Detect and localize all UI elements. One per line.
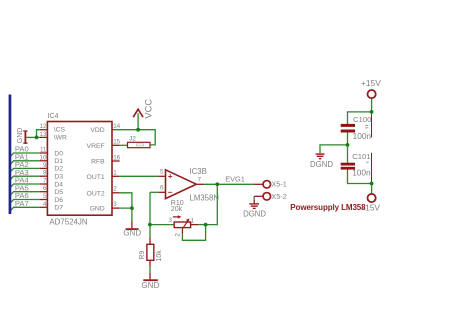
svg-text:D7: D7 [54, 205, 63, 212]
svg-text:5: 5 [160, 169, 164, 176]
svg-text:VCC: VCC [143, 99, 153, 119]
svg-text:15: 15 [113, 139, 120, 146]
svg-text:C100: C100 [353, 115, 371, 124]
svg-text:GND: GND [123, 228, 141, 237]
svg-text:5: 5 [43, 193, 47, 200]
svg-text:20k: 20k [171, 206, 183, 213]
svg-text:3: 3 [113, 201, 117, 208]
svg-text:100n: 100n [352, 167, 371, 177]
svg-text:2: 2 [175, 233, 182, 237]
svg-text:R9: R9 [139, 251, 146, 260]
svg-text:3: 3 [169, 217, 173, 224]
svg-text:X5-1: X5-1 [271, 180, 286, 189]
svg-text:D1: D1 [54, 158, 63, 165]
svg-text:11: 11 [40, 147, 47, 154]
svg-text:7: 7 [198, 177, 202, 184]
svg-text:+15V: +15V [361, 78, 381, 88]
svg-text:AD7524JN: AD7524JN [49, 217, 87, 226]
svg-text:IC4: IC4 [48, 113, 59, 120]
svg-text:D3: D3 [54, 174, 63, 181]
svg-text:C101: C101 [352, 152, 370, 161]
svg-text:12: 12 [40, 123, 47, 130]
svg-text:RFB: RFB [91, 159, 105, 166]
svg-text:D6: D6 [54, 197, 63, 204]
svg-text:1: 1 [191, 217, 195, 224]
svg-text:16: 16 [113, 154, 120, 161]
svg-text:10k: 10k [156, 250, 163, 262]
svg-text:GND: GND [142, 281, 160, 290]
svg-text:D2: D2 [54, 166, 63, 173]
svg-text:7: 7 [43, 178, 47, 185]
svg-text:X5-2: X5-2 [271, 192, 286, 201]
svg-text:VREF: VREF [87, 143, 105, 150]
svg-text:VDD: VDD [90, 127, 104, 134]
svg-text:1: 1 [113, 170, 117, 177]
svg-text:13: 13 [40, 131, 47, 138]
svg-text:100n: 100n [353, 131, 372, 141]
svg-text:6: 6 [43, 185, 47, 192]
svg-text:4: 4 [43, 201, 47, 208]
svg-text:IC3B: IC3B [190, 167, 207, 176]
svg-text:GND: GND [90, 206, 105, 213]
svg-text:GND: GND [17, 128, 24, 144]
svg-text:LM358N: LM358N [190, 193, 219, 202]
svg-text:EVG1: EVG1 [225, 175, 245, 184]
svg-text:2: 2 [113, 186, 117, 193]
svg-text:9: 9 [43, 162, 47, 169]
svg-text:DGND: DGND [310, 160, 333, 169]
svg-text:6: 6 [160, 184, 164, 191]
svg-text:D0: D0 [54, 150, 63, 157]
svg-text:\WR: \WR [54, 134, 67, 141]
svg-text:\CS: \CS [54, 127, 66, 134]
svg-text:DGND: DGND [243, 209, 266, 218]
svg-text:D4: D4 [54, 181, 63, 188]
svg-text:Powersupply LM358: Powersupply LM358 [290, 203, 366, 212]
svg-text:14: 14 [113, 123, 120, 130]
svg-text:OUT2: OUT2 [87, 190, 105, 197]
svg-text:10: 10 [40, 154, 47, 161]
svg-text:OUT1: OUT1 [87, 174, 105, 181]
svg-text:J2: J2 [129, 136, 136, 143]
svg-text:8: 8 [43, 170, 47, 177]
svg-text:PA7: PA7 [15, 199, 29, 208]
svg-text:D5: D5 [54, 189, 63, 196]
